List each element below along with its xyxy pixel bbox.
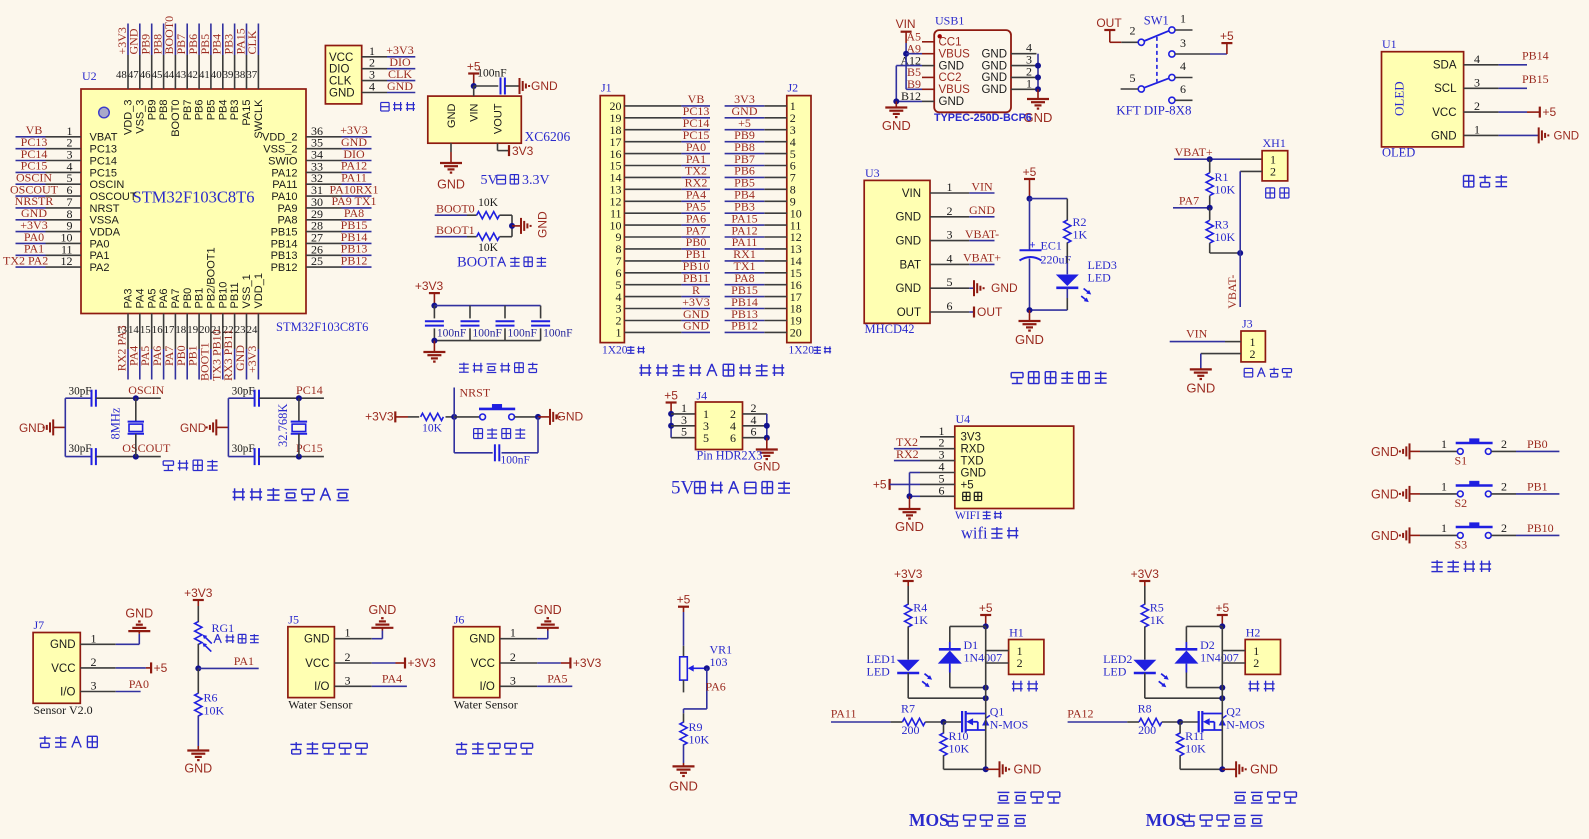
wire net PA11 (831, 721, 902, 723)
pin name VSS_1 (241, 274, 253, 308)
svg-text:10K: 10K (1185, 742, 1206, 756)
svg-text:PA11: PA11 (831, 707, 857, 721)
pin name PC14 (90, 155, 118, 167)
wire net PA12 (725, 236, 765, 238)
pin 5 (671, 425, 695, 439)
wire (1037, 54, 1039, 90)
switch link (1156, 37, 1158, 82)
net label PA4 (126, 346, 140, 366)
svg-text:17: 17 (164, 324, 175, 336)
net label PA11 (831, 707, 857, 721)
wire (96, 397, 161, 399)
pin name PB2/BOOT1 (206, 247, 218, 308)
pin 8 (46, 207, 82, 221)
pin-1 mark (938, 34, 942, 38)
button S? reset (479, 404, 515, 420)
wire net +3V3 (127, 24, 129, 56)
wire net GND (681, 331, 710, 333)
svg-text:MOS: MOS (909, 810, 949, 830)
switch SW1 designator (1144, 14, 1169, 28)
net label R (692, 283, 700, 297)
net label PA5 (547, 672, 567, 686)
ground rail (520, 78, 559, 94)
capacitor 30pF (69, 386, 96, 407)
svg-text:OSCOUT: OSCOUT (90, 191, 137, 203)
svg-text:TYPEC-250D-BCP6: TYPEC-250D-BCP6 (934, 112, 1032, 124)
ground (534, 603, 562, 631)
svg-text:+3V3: +3V3 (184, 586, 213, 600)
net label PC15 (21, 159, 48, 173)
junction (1035, 86, 1041, 92)
svg-text:VCC: VCC (51, 663, 75, 675)
wire (1066, 242, 1068, 274)
connector J6 type (454, 698, 518, 712)
power VIN (896, 17, 916, 43)
net label RX2 PA3 (115, 325, 129, 371)
svg-text:2: 2 (1501, 437, 1507, 451)
wire net PB8 (725, 153, 765, 155)
pin 10 (610, 218, 682, 232)
svg-text:3.3V: 3.3V (522, 173, 550, 188)
wire (684, 668, 707, 709)
svg-text:wifi: wifi (961, 524, 988, 543)
label display (1464, 175, 1508, 187)
svg-text:LED: LED (1103, 665, 1127, 679)
pin name PA7 (170, 289, 182, 309)
connector J4 type (697, 449, 763, 463)
svg-text:VDD_2: VDD_2 (262, 132, 297, 144)
pin name VSS_3 (134, 100, 146, 134)
ic U4 body (955, 426, 1074, 508)
ic U3 designator (865, 166, 880, 180)
connector J6 body (453, 627, 500, 698)
pin 16 (764, 278, 802, 292)
pin name BAT (899, 259, 921, 271)
wire net PA6 (163, 349, 165, 380)
pin 8 (764, 183, 796, 197)
net label RX1 (733, 247, 756, 261)
svg-text:6: 6 (939, 483, 945, 497)
pin 6 (930, 299, 969, 313)
wire (1030, 309, 1068, 311)
pin 33 (306, 159, 342, 173)
label water sensor (290, 742, 367, 754)
connector J4 body (696, 402, 743, 450)
resistor R6 (195, 691, 225, 718)
svg-text:+3V3: +3V3 (415, 279, 444, 293)
ic U1 designator (1382, 37, 1397, 51)
svg-text:MOS: MOS (1146, 810, 1186, 830)
svg-text:GND: GND (683, 319, 709, 333)
svg-text:I/O: I/O (480, 681, 495, 693)
pin 28 (306, 219, 342, 233)
svg-text:CLK: CLK (245, 30, 259, 54)
svg-text:SWCLK: SWCLK (253, 99, 265, 139)
junction (195, 665, 201, 671)
net label VBAT+ (1175, 145, 1213, 159)
resistor R11 (1177, 729, 1207, 756)
pin 2 (1250, 347, 1256, 361)
svg-text:J3: J3 (1242, 317, 1253, 331)
svg-text:30pF: 30pF (69, 443, 92, 455)
pin name PC13 (90, 144, 118, 156)
connector XH1 designator (1263, 136, 1286, 150)
pin name NRST (90, 203, 120, 215)
switch SW1 pole 5-4 (1138, 78, 1169, 92)
pin 3 (764, 123, 796, 137)
power +3V3 (405, 656, 436, 670)
pin 2 (1501, 437, 1507, 451)
svg-text:GND: GND (1250, 762, 1278, 776)
svg-text:PB5: PB5 (206, 100, 218, 121)
pin name VDD_3 (123, 100, 135, 135)
svg-text:VCC: VCC (1432, 107, 1456, 119)
ground (125, 607, 153, 634)
wire net TX2 (681, 176, 710, 178)
svg-text:10K: 10K (1215, 183, 1236, 197)
pin name VSS_2 (263, 144, 297, 156)
svg-text:GND: GND (895, 283, 921, 295)
pin name GND (981, 84, 1007, 96)
wire (1410, 493, 1458, 495)
net label PB1 (686, 247, 707, 261)
pin 20 (199, 314, 211, 350)
junction (704, 665, 710, 671)
pin name OUT (897, 307, 921, 319)
pin 2 (334, 650, 371, 664)
wire (1029, 199, 1031, 250)
wire net PB1 (681, 260, 710, 262)
wire net PA7 (1173, 207, 1210, 209)
pin 12 (46, 254, 82, 268)
svg-text:PB1: PB1 (1527, 479, 1548, 493)
pin name burn (963, 492, 982, 500)
svg-text:100nF: 100nF (543, 328, 572, 340)
pin 17 (610, 135, 682, 149)
pin 18 (610, 123, 682, 137)
pin 20 (610, 99, 682, 113)
wire net CLK (257, 24, 259, 56)
pin 9 (46, 219, 82, 233)
pin name VBUS (939, 84, 971, 96)
connector J7 body (33, 633, 80, 704)
pin A5 (906, 30, 934, 44)
pin name VOUT (493, 103, 505, 134)
svg-text:6: 6 (947, 299, 953, 313)
pin 4 (46, 159, 82, 173)
wire net RX1 (725, 260, 765, 262)
pin name CC2 (939, 72, 962, 84)
svg-text:100nF: 100nF (477, 68, 506, 80)
wire net PB12 (342, 266, 372, 268)
svg-text:+5: +5 (677, 593, 691, 607)
wire net +3V3 (387, 56, 415, 58)
net label GND (683, 307, 709, 321)
svg-text:GND: GND (1371, 445, 1399, 459)
net label PC15 (296, 441, 323, 455)
pin name SWCLK (253, 99, 265, 139)
svg-text:VSSA: VSSA (90, 215, 120, 227)
junction (764, 423, 770, 429)
wire (116, 691, 141, 693)
junction (1219, 623, 1225, 629)
svg-text:R8: R8 (1138, 702, 1152, 716)
pin name I/O (314, 681, 329, 693)
pin 4 (1011, 41, 1037, 55)
svg-text:J6: J6 (454, 612, 465, 626)
pin name VBUS (939, 48, 971, 60)
svg-text:J5: J5 (288, 612, 299, 626)
power GND (19, 419, 53, 435)
pin 4 (743, 413, 767, 427)
svg-text:10K: 10K (422, 423, 443, 435)
ground rail (1539, 127, 1579, 143)
pin name PA15 (241, 100, 253, 126)
pin 19 (610, 111, 682, 125)
net label PA10RX1 (330, 182, 379, 196)
svg-text:GND: GND (304, 634, 330, 646)
svg-text:J2: J2 (788, 81, 799, 95)
svg-text:3: 3 (345, 673, 351, 687)
wire net PB1 (1516, 493, 1559, 495)
svg-text:1X20: 1X20 (789, 345, 815, 357)
net label PB14 (731, 295, 758, 309)
net label GND (732, 104, 758, 118)
regulator value XC6206 (525, 129, 571, 144)
wire net PA8 (725, 284, 765, 286)
wire net BOOT0 (435, 214, 477, 216)
svg-text:CC2: CC2 (939, 72, 962, 84)
svg-text:PB8: PB8 (158, 100, 170, 121)
wire net R (681, 296, 710, 298)
power +3V3 (184, 586, 213, 606)
svg-text:1: 1 (1180, 12, 1186, 26)
pin name PB8 (158, 100, 170, 121)
ground (423, 341, 445, 362)
svg-text:2: 2 (1501, 479, 1507, 493)
net label BOOT0 (436, 202, 475, 216)
svg-text:PB13: PB13 (271, 250, 298, 262)
pin name TXD (961, 456, 984, 468)
svg-text:PB12: PB12 (731, 319, 758, 333)
svg-text:Q2: Q2 (1226, 705, 1241, 719)
svg-text:GND: GND (329, 88, 355, 100)
svg-text:PC13: PC13 (90, 144, 118, 156)
svg-text:3: 3 (947, 228, 953, 242)
wire (1180, 755, 1222, 769)
pin name GND (895, 283, 921, 295)
net label PA5 (686, 200, 706, 214)
transistor Q1 N-MOS (962, 705, 1028, 733)
wire (985, 626, 987, 713)
wire (96, 456, 161, 458)
wire (1499, 134, 1539, 136)
svg-text:PA8: PA8 (278, 215, 298, 227)
svg-text:20: 20 (790, 326, 802, 340)
pin 3 (362, 68, 387, 82)
net label GND (233, 345, 247, 371)
net label TX2 (896, 435, 918, 449)
svg-text:STM32F103C8T6: STM32F103C8T6 (133, 188, 255, 207)
wire net VB (16, 136, 46, 138)
svg-text:PA15: PA15 (241, 100, 253, 126)
pin 19 (764, 314, 802, 328)
net label PB5 (734, 176, 755, 190)
pin 2 (743, 401, 767, 415)
pin number 4 (730, 419, 736, 433)
power +5 (467, 60, 481, 87)
net label PB4 (210, 34, 224, 55)
net label PA4 (686, 188, 706, 202)
svg-text:10K: 10K (1215, 230, 1236, 244)
pin 27 (306, 230, 342, 244)
svg-text:GND: GND (939, 96, 965, 108)
pin 3 (46, 148, 82, 162)
power +5 (1540, 105, 1557, 119)
resistor 10K (421, 413, 444, 434)
wire (228, 456, 254, 458)
svg-text:1X20: 1X20 (602, 345, 628, 357)
label MOS control output (909, 810, 1026, 830)
svg-text:1K: 1K (1073, 228, 1088, 242)
svg-text:N-MOS: N-MOS (990, 718, 1029, 732)
net label GND (387, 79, 413, 93)
svg-text:10K: 10K (949, 742, 970, 756)
svg-text:GND: GND (446, 103, 458, 128)
svg-text:S2: S2 (1455, 496, 1468, 510)
net label PA1 (24, 242, 44, 256)
junction (893, 98, 899, 104)
connector J5 type (288, 698, 352, 712)
svg-text:1: 1 (1441, 521, 1447, 535)
ground rail (550, 409, 584, 425)
svg-text:40: 40 (211, 69, 222, 81)
pin 10 (46, 230, 82, 244)
wire (907, 586, 909, 605)
wire net DIO (387, 68, 415, 70)
pin name VSSA (90, 215, 120, 227)
svg-text:+5: +5 (664, 389, 678, 403)
pin 4 (1169, 59, 1193, 81)
pin name PB3 (229, 100, 241, 121)
label water sensor (456, 742, 533, 754)
junction (1035, 63, 1041, 69)
wire net PA12 (1068, 721, 1139, 723)
pin 2 (1501, 479, 1507, 493)
power +5 (664, 389, 678, 414)
junction (296, 395, 302, 401)
potentiometer VR1 (680, 657, 707, 680)
svg-text:PA4: PA4 (134, 289, 146, 309)
pin name PB4 (217, 100, 229, 121)
wire net PA4 (681, 200, 710, 202)
svg-text:GND: GND (536, 211, 550, 238)
capacitor EC1 220uF (1020, 239, 1072, 267)
svg-text:6: 6 (730, 431, 736, 445)
wire (65, 397, 91, 399)
pin name GND (895, 212, 921, 224)
pin number 1 (703, 407, 709, 421)
svg-text:2: 2 (1474, 99, 1480, 113)
wire (1201, 354, 1241, 368)
diode D2 (1174, 638, 1238, 665)
designator RG1 (212, 621, 235, 635)
svg-text:200: 200 (1138, 723, 1156, 737)
connector H2 designator (1246, 626, 1261, 640)
net label PB13 (731, 307, 758, 321)
wire (259, 397, 324, 399)
svg-text:XC6206: XC6206 (525, 129, 571, 144)
power +5 (873, 477, 890, 491)
wire (1162, 721, 1180, 723)
pin 2 (986, 656, 1023, 670)
pin 5 (920, 471, 955, 485)
svg-text:MHCD42: MHCD42 (865, 322, 915, 336)
svg-text:GND: GND (991, 281, 1018, 295)
pin name VCC (329, 52, 353, 64)
pin 26 (306, 242, 342, 256)
crystal value 32.768K (276, 404, 290, 447)
power +5 (979, 601, 993, 626)
power GND (1371, 443, 1410, 459)
svg-text:100nF: 100nF (501, 455, 530, 467)
junction (941, 719, 947, 725)
svg-text:VDD_3: VDD_3 (123, 100, 135, 135)
pin 11 (46, 242, 82, 256)
pin 4 (764, 135, 796, 149)
label chip filter caps (459, 363, 538, 373)
wire (259, 456, 324, 458)
power +5 (1220, 29, 1234, 54)
ic U1 body (1382, 52, 1464, 147)
svg-text:24: 24 (247, 324, 258, 336)
net label PB0 (174, 345, 188, 366)
wire net GND (969, 216, 994, 218)
connector download-port body (325, 46, 361, 104)
wire net PB4 (725, 200, 765, 202)
svg-text:GND: GND (895, 212, 921, 224)
svg-text:4: 4 (947, 251, 953, 265)
svg-text:PA11: PA11 (272, 179, 297, 191)
wire net PA1 (16, 254, 46, 256)
net label PB10 (1527, 521, 1554, 535)
svg-text:LED: LED (867, 665, 891, 679)
wire net PA11 (725, 248, 765, 250)
ground (753, 438, 780, 474)
net label PB3 (221, 34, 235, 55)
pin B5 (907, 65, 934, 79)
svg-text:I/O: I/O (314, 681, 329, 693)
pin 25 (306, 254, 342, 268)
ground (669, 763, 698, 794)
pin name GND (895, 236, 921, 248)
svg-text:48: 48 (116, 69, 127, 81)
svg-text:PB12: PB12 (341, 253, 368, 267)
pin 5 (764, 147, 796, 161)
svg-text:R6: R6 (204, 691, 218, 705)
svg-text:PA7: PA7 (170, 289, 182, 309)
pin 47 (128, 55, 140, 89)
svg-text:200: 200 (902, 723, 920, 737)
svg-text:Q1: Q1 (990, 705, 1005, 719)
wire net TX2 (894, 448, 920, 450)
pin name PA12 (271, 167, 297, 179)
svg-text:37: 37 (246, 69, 257, 81)
pin name PA8 (278, 215, 298, 227)
svg-text:TXD: TXD (961, 456, 984, 468)
net label NRSTR (15, 194, 54, 208)
crystal value 8MHz (109, 407, 123, 439)
